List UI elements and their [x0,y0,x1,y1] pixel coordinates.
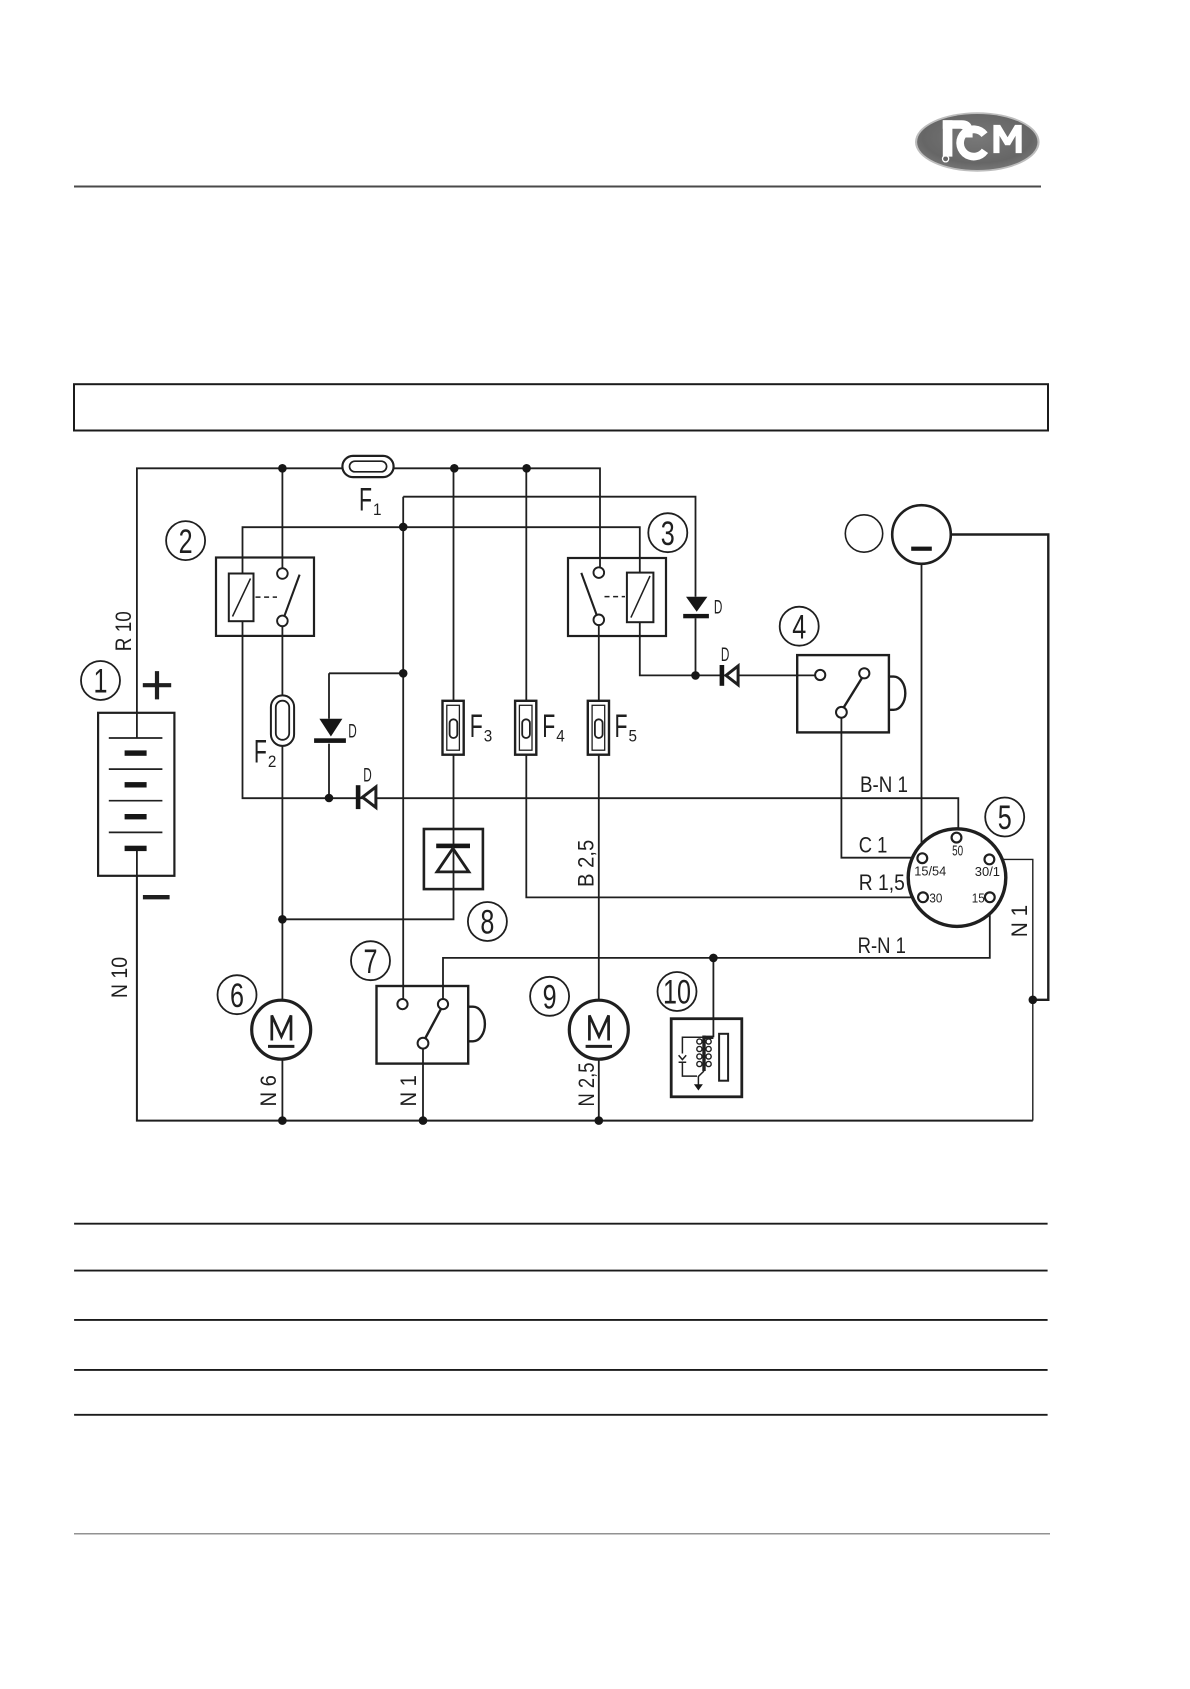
svg-text:N 1: N 1 [1007,905,1032,937]
svg-text:8: 8 [480,904,494,942]
svg-text:4: 4 [556,727,565,746]
svg-text:N 1: N 1 [396,1075,421,1107]
svg-text:3: 3 [484,727,493,746]
svg-text:D: D [714,598,723,619]
svg-text:10: 10 [663,974,691,1012]
svg-text:6: 6 [230,977,244,1015]
svg-text:F: F [470,708,483,744]
svg-text:F: F [359,482,372,518]
svg-text:R 10: R 10 [111,611,136,651]
svg-text:5: 5 [629,727,638,746]
svg-text:15/54: 15/54 [914,863,946,878]
svg-text:R-N 1: R-N 1 [858,933,906,958]
svg-text:2: 2 [179,523,193,561]
svg-text:5: 5 [998,800,1012,838]
svg-text:15: 15 [972,890,985,905]
svg-text:D: D [348,722,357,743]
svg-text:N 2,5: N 2,5 [574,1063,599,1107]
svg-text:C 1: C 1 [859,832,888,857]
svg-text:B-N 1: B-N 1 [860,772,908,797]
svg-text:R 1,5: R 1,5 [859,870,905,895]
svg-text:1: 1 [94,663,108,701]
svg-text:2: 2 [268,752,277,771]
svg-text:9: 9 [543,979,557,1017]
svg-text:30/1: 30/1 [975,864,1000,879]
svg-text:1: 1 [373,500,382,519]
svg-text:F: F [542,708,555,744]
svg-text:F: F [615,708,628,744]
svg-text:4: 4 [792,609,806,647]
svg-text:3: 3 [661,515,675,553]
svg-text:D: D [721,645,730,666]
svg-text:F: F [254,734,267,770]
svg-text:D: D [363,766,372,787]
svg-text:7: 7 [364,943,378,981]
svg-text:50: 50 [952,843,963,860]
svg-text:N 10: N 10 [107,957,132,998]
svg-text:30: 30 [929,890,942,905]
svg-text:B 2,5: B 2,5 [573,840,598,887]
svg-text:N 6: N 6 [256,1075,281,1107]
